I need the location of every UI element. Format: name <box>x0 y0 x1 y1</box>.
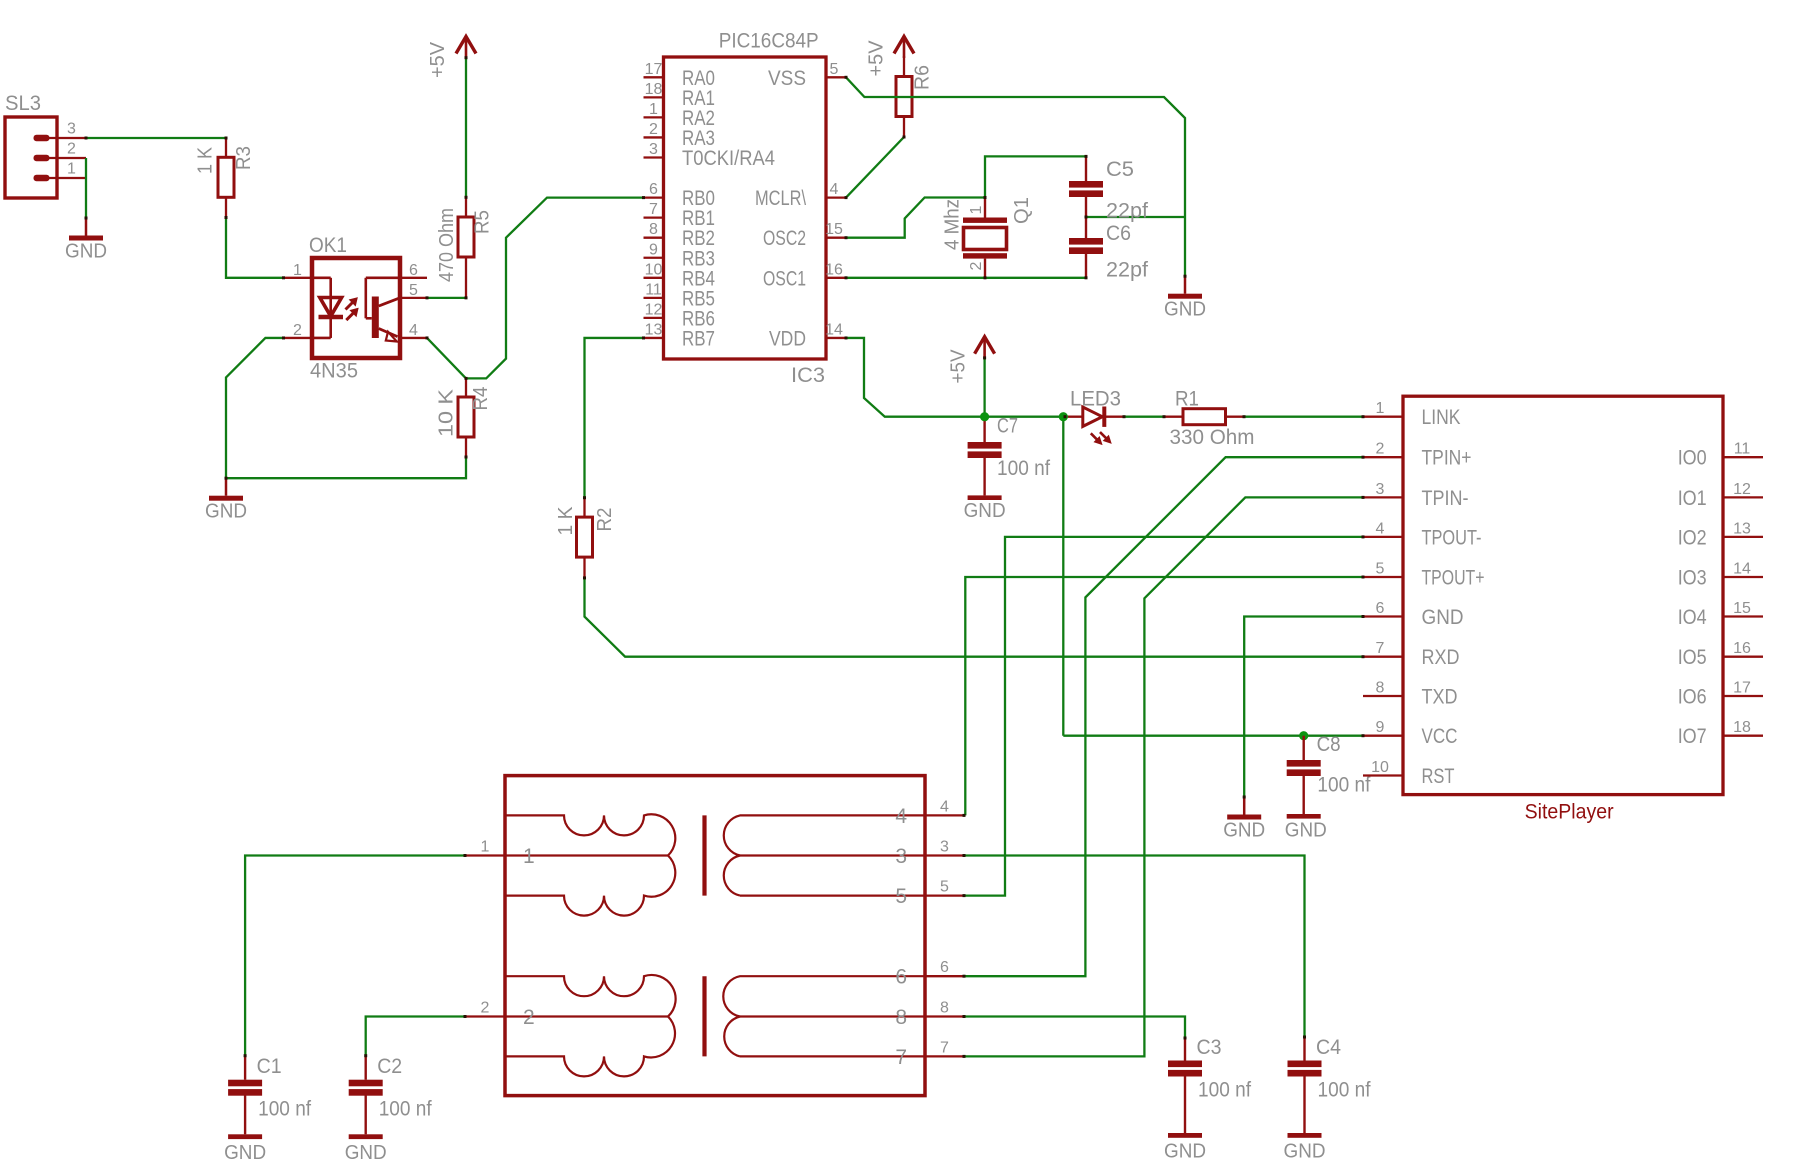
svg-text:100 nf: 100 nf <box>1198 1079 1251 1102</box>
svg-text:SitePlayer: SitePlayer <box>1525 801 1614 824</box>
svg-text:Q1: Q1 <box>1011 197 1033 224</box>
svg-text:100 nf: 100 nf <box>1317 774 1370 797</box>
svg-text:9: 9 <box>649 241 658 258</box>
svg-text:OK1: OK1 <box>309 234 347 257</box>
svg-text:T0CKI/RA4: T0CKI/RA4 <box>682 147 775 170</box>
svg-text:1: 1 <box>649 101 658 118</box>
svg-text:VSS: VSS <box>768 67 806 90</box>
svg-text:SL3: SL3 <box>5 92 41 115</box>
svg-text:18: 18 <box>1733 719 1751 736</box>
svg-text:GND: GND <box>1422 606 1464 629</box>
svg-text:100 nf: 100 nf <box>997 457 1050 480</box>
svg-text:22pf: 22pf <box>1106 259 1148 282</box>
svg-text:C2: C2 <box>377 1055 402 1078</box>
svg-text:1: 1 <box>968 206 985 215</box>
svg-text:12: 12 <box>645 301 663 318</box>
svg-text:C1: C1 <box>257 1055 282 1078</box>
svg-text:10 K: 10 K <box>436 388 458 437</box>
svg-text:R3: R3 <box>233 146 255 170</box>
svg-text:TPIN-: TPIN- <box>1422 487 1469 510</box>
svg-text:12: 12 <box>1733 481 1751 498</box>
svg-text:2: 2 <box>481 1000 490 1017</box>
svg-text:1 K: 1 K <box>555 506 577 536</box>
svg-text:IO6: IO6 <box>1678 686 1707 709</box>
svg-text:4: 4 <box>830 181 839 198</box>
svg-text:GND: GND <box>1285 820 1327 842</box>
svg-text:C7: C7 <box>997 415 1018 438</box>
svg-text:14: 14 <box>1733 561 1751 578</box>
svg-text:C6: C6 <box>1106 222 1131 245</box>
svg-text:3: 3 <box>940 839 949 856</box>
svg-text:3: 3 <box>649 141 658 158</box>
svg-text:TPIN+: TPIN+ <box>1422 447 1472 470</box>
svg-text:4: 4 <box>409 322 418 339</box>
svg-text:1: 1 <box>67 161 76 178</box>
svg-text:PIC16C84P: PIC16C84P <box>719 30 819 53</box>
svg-text:5: 5 <box>940 879 949 896</box>
svg-text:6: 6 <box>940 959 949 976</box>
svg-text:1 K: 1 K <box>195 146 217 174</box>
svg-text:R5: R5 <box>472 210 494 234</box>
svg-text:IO0: IO0 <box>1678 447 1707 470</box>
svg-text:1: 1 <box>1376 400 1385 417</box>
svg-text:2: 2 <box>1376 441 1385 458</box>
svg-text:14: 14 <box>825 321 843 338</box>
svg-text:1: 1 <box>293 262 302 279</box>
svg-text:GND: GND <box>65 241 107 263</box>
svg-text:4: 4 <box>895 805 907 828</box>
svg-text:8: 8 <box>940 1000 949 1017</box>
svg-text:GND: GND <box>224 1142 266 1162</box>
svg-text:R1: R1 <box>1175 388 1199 411</box>
svg-text:6: 6 <box>649 181 658 198</box>
svg-text:2: 2 <box>968 262 985 271</box>
svg-text:RST: RST <box>1422 765 1455 788</box>
svg-text:13: 13 <box>1733 520 1751 537</box>
svg-text:1: 1 <box>481 839 490 856</box>
svg-text:3: 3 <box>1376 481 1385 498</box>
svg-text:7: 7 <box>649 201 658 218</box>
svg-text:17: 17 <box>645 61 663 78</box>
svg-text:R4: R4 <box>470 387 492 411</box>
svg-text:5: 5 <box>409 282 418 299</box>
svg-text:4N35: 4N35 <box>310 360 358 383</box>
svg-text:GND: GND <box>1164 299 1206 321</box>
svg-text:16: 16 <box>825 261 843 278</box>
svg-text:IO2: IO2 <box>1678 526 1707 549</box>
svg-text:11: 11 <box>645 281 662 298</box>
svg-text:6: 6 <box>409 262 418 279</box>
svg-text:TXD: TXD <box>1422 686 1458 709</box>
svg-text:GND: GND <box>205 501 247 523</box>
svg-text:IO3: IO3 <box>1678 567 1707 590</box>
svg-text:LINK: LINK <box>1422 406 1461 429</box>
svg-text:MCLR\: MCLR\ <box>755 187 806 210</box>
svg-text:3: 3 <box>67 121 76 138</box>
svg-text:2: 2 <box>293 322 302 339</box>
svg-text:GND: GND <box>1164 1141 1206 1162</box>
svg-text:IO1: IO1 <box>1678 487 1707 510</box>
svg-text:22pf: 22pf <box>1106 200 1148 223</box>
svg-text:IO7: IO7 <box>1678 725 1707 748</box>
svg-text:6: 6 <box>895 966 907 989</box>
svg-text:+5V: +5V <box>427 41 449 78</box>
svg-text:330 Ohm: 330 Ohm <box>1170 426 1255 449</box>
svg-text:IC3: IC3 <box>791 364 825 387</box>
svg-text:GND: GND <box>1223 820 1265 842</box>
svg-text:4: 4 <box>1376 520 1385 537</box>
svg-text:IO4: IO4 <box>1678 606 1707 629</box>
svg-text:2: 2 <box>67 141 76 158</box>
svg-text:100 nf: 100 nf <box>379 1098 432 1121</box>
svg-text:2: 2 <box>523 1006 535 1029</box>
svg-text:11: 11 <box>1734 441 1751 458</box>
svg-text:1: 1 <box>523 845 535 868</box>
svg-text:RB7: RB7 <box>682 327 715 350</box>
svg-text:4: 4 <box>940 798 949 815</box>
svg-text:IO5: IO5 <box>1678 646 1707 669</box>
svg-text:C5: C5 <box>1106 158 1134 181</box>
svg-text:5: 5 <box>895 885 907 908</box>
svg-text:100 nf: 100 nf <box>258 1098 311 1121</box>
svg-text:VCC: VCC <box>1422 725 1458 748</box>
svg-text:VDD: VDD <box>769 327 806 350</box>
svg-text:3: 3 <box>895 845 907 868</box>
svg-text:5: 5 <box>1376 561 1385 578</box>
svg-text:GND: GND <box>1284 1141 1326 1162</box>
svg-text:10: 10 <box>1371 759 1389 776</box>
svg-text:R6: R6 <box>912 65 934 90</box>
svg-text:TPOUT-: TPOUT- <box>1422 526 1482 549</box>
svg-text:15: 15 <box>1733 600 1751 617</box>
svg-text:OSC1: OSC1 <box>763 267 806 290</box>
svg-text:16: 16 <box>1733 640 1751 657</box>
svg-text:C4: C4 <box>1316 1036 1341 1059</box>
svg-text:C3: C3 <box>1197 1036 1222 1059</box>
svg-text:9: 9 <box>1376 719 1385 736</box>
svg-text:7: 7 <box>1376 640 1385 657</box>
svg-text:R2: R2 <box>594 508 616 532</box>
svg-text:OSC2: OSC2 <box>763 227 806 250</box>
svg-text:17: 17 <box>1733 680 1751 697</box>
svg-text:RXD: RXD <box>1422 646 1460 669</box>
svg-text:+5V: +5V <box>866 40 888 77</box>
svg-text:7: 7 <box>895 1046 907 1069</box>
svg-text:7: 7 <box>940 1039 949 1056</box>
svg-text:100 nf: 100 nf <box>1318 1079 1371 1102</box>
svg-text:GND: GND <box>964 500 1006 522</box>
svg-text:8: 8 <box>649 221 658 238</box>
svg-text:470 Ohm: 470 Ohm <box>436 208 458 282</box>
svg-text:8: 8 <box>895 1006 907 1029</box>
svg-text:18: 18 <box>645 81 663 98</box>
svg-text:10: 10 <box>645 261 663 278</box>
svg-text:4 Mhz: 4 Mhz <box>942 199 964 250</box>
svg-text:LED3: LED3 <box>1070 388 1121 411</box>
svg-text:5: 5 <box>830 61 839 78</box>
svg-text:GND: GND <box>345 1142 387 1162</box>
svg-text:TPOUT+: TPOUT+ <box>1422 567 1485 590</box>
svg-text:2: 2 <box>649 121 658 138</box>
svg-text:13: 13 <box>645 321 663 338</box>
svg-text:C8: C8 <box>1317 733 1341 756</box>
svg-text:8: 8 <box>1376 680 1385 697</box>
svg-text:15: 15 <box>825 221 843 238</box>
svg-text:6: 6 <box>1376 600 1385 617</box>
svg-text:+5V: +5V <box>948 349 970 384</box>
